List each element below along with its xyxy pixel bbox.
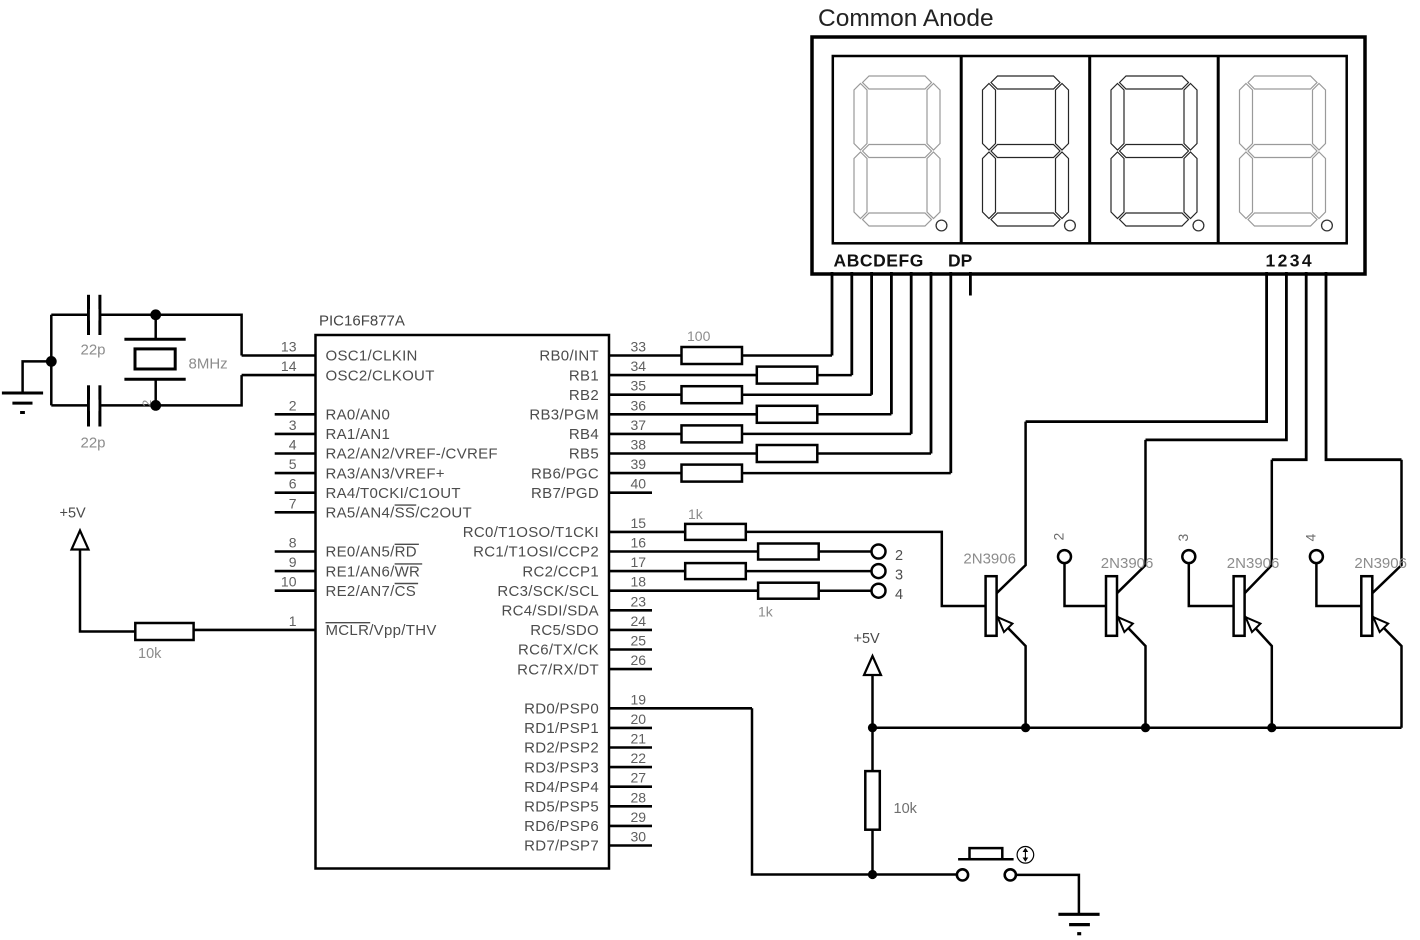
crystal stub bottom xyxy=(154,379,157,405)
svg-text:18: 18 xyxy=(631,574,647,590)
7-segment digit 2 xyxy=(991,76,1060,89)
svg-text:2N3906: 2N3906 xyxy=(963,551,1016,568)
svg-text:10k: 10k xyxy=(894,801,918,817)
wire osc bottom xyxy=(51,375,241,405)
chip pin 23 stub xyxy=(609,609,652,612)
resistor 100ohm R3 xyxy=(682,386,743,403)
svg-text:2N3906: 2N3906 xyxy=(1354,555,1407,572)
chip pin 27 stub xyxy=(609,785,652,788)
7-segment digit 1 xyxy=(863,76,932,89)
svg-text:OSC1/CLKIN: OSC1/CLKIN xyxy=(326,348,418,365)
svg-text:6: 6 xyxy=(289,476,297,492)
svg-text:26: 26 xyxy=(631,652,647,668)
svg-text:23: 23 xyxy=(631,593,647,609)
svg-text:RB2: RB2 xyxy=(569,387,599,404)
svg-text:2: 2 xyxy=(289,397,297,413)
vcc arrow left xyxy=(72,531,89,550)
svg-text:1k: 1k xyxy=(688,506,704,522)
chip pin 26 stub xyxy=(609,668,652,671)
chip pin 14 stub xyxy=(242,374,316,377)
vcc arrow bottom xyxy=(864,656,881,675)
svg-text:RA3/AN3/VREF+: RA3/AN3/VREF+ xyxy=(326,465,445,482)
display pin DP stub xyxy=(969,272,972,296)
svg-text:DP: DP xyxy=(948,251,973,271)
chip pin 5 stub xyxy=(275,472,316,475)
resistor 10k R12 xyxy=(135,623,193,640)
resistor 1k R10 xyxy=(685,563,746,579)
connector circle 4b xyxy=(1310,550,1323,563)
ground symbol bottom xyxy=(1058,913,1099,916)
chip pin 1 stub xyxy=(194,629,316,632)
display pin F wire xyxy=(930,272,933,454)
chip pin 40 stub xyxy=(609,491,652,494)
resistor 1k R9 xyxy=(758,544,819,560)
wire R1 to display pin A xyxy=(742,354,832,357)
svg-text:3: 3 xyxy=(289,417,297,433)
chip pin 38 stub xyxy=(609,452,757,455)
svg-text:29: 29 xyxy=(631,809,647,825)
junction rail Q2 xyxy=(1141,723,1150,732)
svg-text:RA5/AN4/SS/C2OUT: RA5/AN4/SS/C2OUT xyxy=(326,505,473,522)
svg-text:3: 3 xyxy=(1175,534,1191,542)
wire Q2 base xyxy=(1065,563,1107,606)
svg-text:RA0/AN0: RA0/AN0 xyxy=(326,407,391,424)
ground symbol top-left xyxy=(2,392,43,395)
svg-text:4: 4 xyxy=(895,587,903,603)
svg-text:RE2/AN7/CS: RE2/AN7/CS xyxy=(326,583,417,600)
wire RD0 route xyxy=(752,708,957,874)
chip pin 4 stub xyxy=(275,452,316,455)
display pin 3 wire xyxy=(1272,272,1306,460)
capacitor C1 plates xyxy=(87,295,90,335)
svg-text:22p: 22p xyxy=(81,342,106,359)
switch contact left xyxy=(957,869,968,880)
junction R13 bottom xyxy=(868,870,877,879)
display pin 2 wire xyxy=(1146,272,1287,440)
wire R4 to display pin D xyxy=(817,413,891,416)
svg-text:10: 10 xyxy=(281,574,297,590)
svg-text:PIC16F877A: PIC16F877A xyxy=(319,313,405,330)
connector circle 3 xyxy=(872,564,886,578)
display divider 3-4 xyxy=(1217,56,1220,243)
wire R13 down xyxy=(871,830,874,875)
svg-text:RD3/PSP3: RD3/PSP3 xyxy=(524,759,599,776)
chip pin 29 stub xyxy=(609,825,652,828)
wire osc left xyxy=(50,315,53,406)
svg-text:RB5: RB5 xyxy=(569,446,599,463)
wire R3 to display pin C xyxy=(742,393,872,396)
svg-text:36: 36 xyxy=(631,397,647,413)
chip pin 33 stub xyxy=(609,354,682,357)
svg-text:RC2/CCP1: RC2/CCP1 xyxy=(522,563,599,580)
svg-text:RD0/PSP0: RD0/PSP0 xyxy=(524,701,599,718)
wire R10 to connector 3 xyxy=(746,570,872,573)
svg-text:8: 8 xyxy=(289,535,297,551)
svg-text:RC7/RX/DT: RC7/RX/DT xyxy=(517,661,599,678)
chip pin 8 stub xyxy=(275,550,316,553)
svg-text:RB6/PGC: RB6/PGC xyxy=(531,465,599,482)
PIC16F877A chip body xyxy=(316,335,610,869)
svg-text:RA2/AN2/VREF-/CVREF: RA2/AN2/VREF-/CVREF xyxy=(326,446,498,463)
transistor Q1 2N3906 xyxy=(997,422,1026,594)
chip pin 9 stub xyxy=(275,570,316,573)
transistor Q4 2N3906 xyxy=(1372,460,1401,594)
svg-text:RD2/PSP2: RD2/PSP2 xyxy=(524,740,599,757)
chip pin 22 stub xyxy=(609,766,652,769)
chip pin 37 stub xyxy=(609,433,682,436)
crystal body xyxy=(135,349,175,369)
svg-text:17: 17 xyxy=(631,554,647,570)
svg-text:14: 14 xyxy=(281,358,297,374)
switch contact right xyxy=(1005,869,1016,880)
svg-text:9: 9 xyxy=(289,554,297,570)
svg-text:RD4/PSP4: RD4/PSP4 xyxy=(524,779,599,796)
svg-text:RB7/PGD: RB7/PGD xyxy=(531,485,599,502)
chip pin 10 stub xyxy=(275,589,316,592)
svg-text:RE0/AN5/RD: RE0/AN5/RD xyxy=(326,544,417,561)
svg-text:21: 21 xyxy=(631,731,647,747)
transistor Q2 2N3906 xyxy=(1117,440,1146,593)
svg-text:7: 7 xyxy=(289,495,297,511)
connector circle 3b xyxy=(1182,550,1195,563)
chip pin 30 stub xyxy=(609,844,652,847)
svg-text:Common Anode: Common Anode xyxy=(818,5,994,32)
svg-text:RA1/AN1: RA1/AN1 xyxy=(326,426,391,443)
chip pin 2 stub xyxy=(275,413,316,416)
chip pin 3 stub xyxy=(275,433,316,436)
chip pin 16 stub xyxy=(609,550,758,553)
junction rail Q1 xyxy=(1021,723,1030,732)
svg-text:39: 39 xyxy=(631,456,647,472)
wire to ground xyxy=(23,361,52,393)
display pin A wire xyxy=(831,272,834,356)
svg-text:20: 20 xyxy=(631,711,647,727)
junction gnd tap xyxy=(46,356,57,367)
svg-text:4: 4 xyxy=(1302,534,1318,542)
junction crystal bottom xyxy=(150,400,161,411)
svg-text:40: 40 xyxy=(631,476,647,492)
svg-text:RC6/TX/CK: RC6/TX/CK xyxy=(518,642,599,659)
switch actuator xyxy=(970,848,1003,859)
display divider 1-2 xyxy=(960,56,963,243)
svg-text:RC3/SCK/SCL: RC3/SCK/SCL xyxy=(497,583,599,600)
svg-text:1k: 1k xyxy=(758,604,774,620)
svg-text:1: 1 xyxy=(289,613,297,629)
chip pin 28 stub xyxy=(609,805,652,808)
chip pin 17 stub xyxy=(609,570,685,573)
display pin E wire xyxy=(910,272,913,434)
wire R11 to connector 4 xyxy=(819,589,872,592)
wire Q4 base xyxy=(1316,563,1361,606)
svg-text:RD5/PSP5: RD5/PSP5 xyxy=(524,799,599,816)
svg-text:16: 16 xyxy=(631,535,647,551)
junction crystal top xyxy=(150,309,161,320)
svg-text:RB1: RB1 xyxy=(569,367,599,384)
svg-text:RC1/T1OSI/CCP2: RC1/T1OSI/CCP2 xyxy=(473,544,599,561)
svg-text:22: 22 xyxy=(631,750,647,766)
chip pin 6 stub xyxy=(275,491,316,494)
svg-text:2: 2 xyxy=(1051,533,1067,541)
connector circle 2b xyxy=(1058,550,1071,563)
7-segment digit 3 xyxy=(1120,76,1189,89)
chip pin 15 stub xyxy=(609,531,685,534)
svg-text:RC4/SDI/SDA: RC4/SDI/SDA xyxy=(502,603,600,620)
resistor 100ohm R6 xyxy=(757,445,818,462)
wire RC0 to Q1 base xyxy=(746,532,986,606)
emitter +5V rail xyxy=(873,726,1402,729)
svg-text:30: 30 xyxy=(631,829,647,845)
svg-text:8MHz: 8MHz xyxy=(189,356,228,373)
svg-text:2N3906: 2N3906 xyxy=(1227,555,1280,572)
svg-text:34: 34 xyxy=(631,358,647,374)
display outer box xyxy=(812,37,1365,274)
resistor 1k R11 xyxy=(758,583,819,599)
chip pin 7 stub xyxy=(275,511,316,514)
display divider 2-3 xyxy=(1088,56,1091,243)
svg-text:19: 19 xyxy=(631,691,647,707)
chip pin 34 stub xyxy=(609,374,757,377)
crystal stub top xyxy=(154,315,157,340)
resistor 100ohm R4 xyxy=(757,406,818,423)
svg-text:3: 3 xyxy=(895,568,903,584)
junction rail +5V xyxy=(868,723,877,732)
display pin C wire xyxy=(870,272,873,395)
display pin 1 wire xyxy=(1026,272,1267,422)
junction rail Q3 xyxy=(1267,723,1276,732)
capacitor C2 plates xyxy=(87,385,90,426)
wire Q3 base xyxy=(1189,563,1234,606)
connector circle 2 xyxy=(872,545,886,559)
svg-text:+5V: +5V xyxy=(60,506,87,522)
svg-text:RC0/T1OSO/T1CKI: RC0/T1OSO/T1CKI xyxy=(463,524,599,541)
wire switch to ground xyxy=(1016,875,1079,914)
svg-text:4: 4 xyxy=(289,437,297,453)
chip pin 25 stub xyxy=(609,648,652,651)
chip pin 39 stub xyxy=(609,472,682,475)
wire +5V down xyxy=(871,675,874,771)
svg-text:RE1/AN6/WR: RE1/AN6/WR xyxy=(326,563,421,580)
svg-text:10k: 10k xyxy=(138,646,162,662)
svg-text:37: 37 xyxy=(631,417,647,433)
wire +5V to R12 xyxy=(80,550,135,632)
svg-text:RD1/PSP1: RD1/PSP1 xyxy=(524,720,599,737)
svg-text:+5V: +5V xyxy=(854,631,881,647)
svg-text:25: 25 xyxy=(631,633,647,649)
svg-text:2N3906: 2N3906 xyxy=(1101,555,1154,572)
svg-text:27: 27 xyxy=(631,770,647,786)
svg-text:38: 38 xyxy=(631,437,647,453)
7-segment digit 4 xyxy=(1248,76,1317,89)
svg-text:28: 28 xyxy=(631,789,647,805)
svg-text:15: 15 xyxy=(631,515,647,531)
crystal plate top xyxy=(124,338,185,341)
crystal plate bottom xyxy=(124,378,185,381)
svg-text:13: 13 xyxy=(281,339,297,355)
svg-text:OSC2/CLKOUT: OSC2/CLKOUT xyxy=(326,367,435,384)
resistor 1k R8 xyxy=(685,524,746,540)
svg-text:100: 100 xyxy=(687,328,711,344)
svg-text:RD6/PSP6: RD6/PSP6 xyxy=(524,818,599,835)
resistor 10k R13 xyxy=(865,771,880,830)
chip pin 21 stub xyxy=(609,746,652,749)
display pin B wire xyxy=(850,272,853,375)
wire R9 to connector 2 xyxy=(819,550,872,553)
wire R5 to display pin E xyxy=(742,433,911,436)
chip pin 13 stub xyxy=(242,354,316,357)
svg-text:RA4/T0CKI/C1OUT: RA4/T0CKI/C1OUT xyxy=(326,485,461,502)
chip pin 35 stub xyxy=(609,393,682,396)
svg-text:24: 24 xyxy=(631,613,647,629)
svg-text:ABCDEFG: ABCDEFG xyxy=(834,251,924,271)
svg-text:RC5/SDO: RC5/SDO xyxy=(530,622,599,639)
svg-text:RB3/PGM: RB3/PGM xyxy=(529,407,599,424)
resistor 100ohm R7 xyxy=(682,465,743,482)
display pin G wire xyxy=(949,272,952,473)
display pin 4 wire xyxy=(1326,272,1402,460)
svg-text:RD7/PSP7: RD7/PSP7 xyxy=(524,838,599,855)
wire R7 to display pin G xyxy=(742,472,951,475)
svg-text:1234: 1234 xyxy=(1266,251,1315,271)
chip pin 20 stub xyxy=(609,727,652,730)
display inner box xyxy=(833,56,1347,243)
chip pin 24 stub xyxy=(609,629,652,632)
wire R2 to display pin B xyxy=(817,374,852,377)
resistor 100ohm R1 xyxy=(682,347,743,364)
svg-text:5: 5 xyxy=(289,456,297,472)
svg-text:RB4: RB4 xyxy=(569,426,599,443)
resistor 100ohm R5 xyxy=(682,425,743,442)
svg-text:MCLR/Vpp/THV: MCLR/Vpp/THV xyxy=(326,622,437,639)
resistor 100ohm R2 xyxy=(757,367,818,384)
transistor Q3 2N3906 xyxy=(1245,460,1272,594)
switch spring circle xyxy=(1017,847,1034,864)
connector circle 4 xyxy=(872,584,886,598)
svg-text:33: 33 xyxy=(631,339,647,355)
svg-text:35: 35 xyxy=(631,378,647,394)
chip pin 36 stub xyxy=(609,413,757,416)
svg-text:2: 2 xyxy=(895,548,903,564)
chip pin 19 stub xyxy=(609,707,752,710)
display pin D wire xyxy=(890,272,893,414)
svg-text:22p: 22p xyxy=(81,435,106,452)
switch base line xyxy=(958,858,1014,861)
svg-text:RB0/INT: RB0/INT xyxy=(539,348,599,365)
wire R6 to display pin F xyxy=(817,452,931,455)
chip pin 18 stub xyxy=(609,589,758,592)
wire osc top xyxy=(51,315,241,356)
